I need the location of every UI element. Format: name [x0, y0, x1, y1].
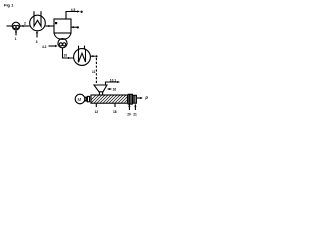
svg-text:16: 16	[113, 87, 117, 91]
svg-text:P: P	[145, 96, 148, 101]
svg-text:M: M	[78, 97, 82, 102]
svg-text:Fig 1: Fig 1	[4, 3, 14, 8]
svg-text:1: 1	[15, 37, 17, 41]
svg-text:10: 10	[64, 54, 68, 58]
svg-text:20: 20	[127, 113, 131, 117]
svg-text:4.5: 4.5	[71, 8, 76, 12]
svg-text:18: 18	[113, 110, 117, 114]
svg-text:21: 21	[133, 113, 137, 117]
svg-text:10.1: 10.1	[110, 78, 116, 82]
svg-text:4.2: 4.2	[42, 45, 47, 49]
svg-text:12: 12	[95, 110, 99, 114]
svg-text:2: 2	[24, 22, 26, 26]
svg-text:3: 3	[36, 40, 38, 44]
svg-text:11: 11	[92, 70, 96, 74]
